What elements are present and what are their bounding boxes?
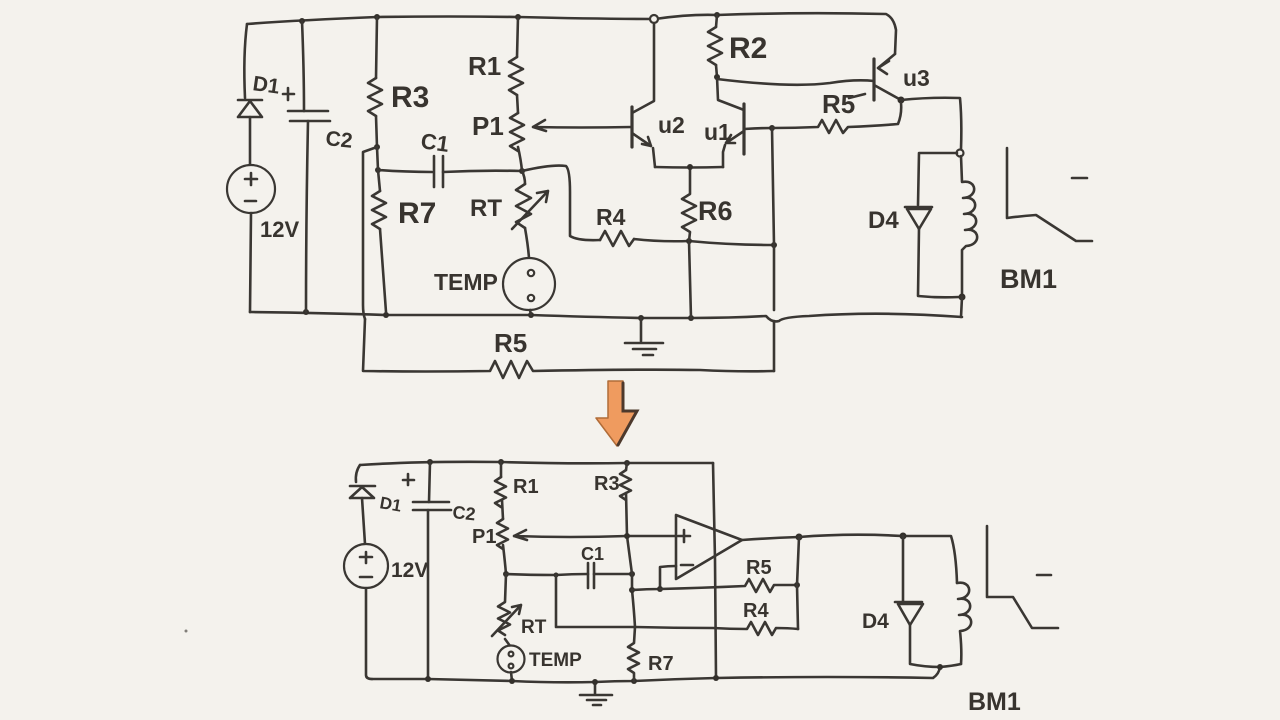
svg-text:TEMP: TEMP <box>434 269 498 295</box>
wire C1b right <box>594 573 632 576</box>
P1b wiper arrow <box>514 530 676 540</box>
wire D1b to source <box>362 498 365 544</box>
node coil bottom <box>959 294 966 301</box>
svg-text:12V: 12V <box>391 559 428 582</box>
resistor R6 <box>682 167 696 241</box>
svg-text:R2: R2 <box>729 32 767 65</box>
wire R6 node to ground rail <box>689 241 691 318</box>
node below P1b <box>503 571 509 577</box>
capacitor C2 <box>288 111 330 121</box>
svg-text:R3: R3 <box>391 81 429 114</box>
svg-text:D4: D4 <box>868 207 899 234</box>
node C2 bottom <box>303 309 309 315</box>
wire R3 top <box>376 17 377 78</box>
wire C1 to P1 node <box>443 171 522 172</box>
wire node to left drop <box>363 147 377 319</box>
svg-text:u3: u3 <box>903 65 930 91</box>
potentiometer P1 <box>510 113 524 151</box>
svg-text:R4: R4 <box>743 600 769 622</box>
resistor R4b line <box>635 622 798 635</box>
P1 wiper arrow <box>533 120 632 131</box>
sensor TEMP <box>503 258 555 310</box>
node ground rail <box>638 315 644 321</box>
node C1 left <box>375 167 381 173</box>
svg-text:R5: R5 <box>822 89 855 119</box>
wire source to bottom rail <box>250 213 251 312</box>
node C1b right <box>629 571 635 577</box>
node U1 base <box>769 125 775 131</box>
wire D4b down <box>902 536 905 601</box>
svg-text:P1: P1 <box>472 526 496 548</box>
wire top rail bottom circuit <box>360 462 713 465</box>
node R3b top <box>624 460 630 466</box>
diode D4b <box>895 602 923 625</box>
wire drop to R4b line <box>556 575 635 627</box>
node TEMPb rail <box>509 678 515 684</box>
arrow orange <box>596 381 637 446</box>
node emitters <box>687 164 693 170</box>
node supply rail bottom <box>713 675 719 681</box>
wire R7 top <box>378 170 380 191</box>
svg-text:R7: R7 <box>648 653 674 675</box>
wire C2 bottom <box>306 121 308 312</box>
node feedback <box>657 586 663 592</box>
svg-text:R6: R6 <box>698 196 733 226</box>
svg-text:P1: P1 <box>472 111 504 141</box>
wire bottom rail <box>250 312 962 321</box>
wire RT to TEMP <box>525 228 529 258</box>
wire P1 to node <box>518 147 522 171</box>
switch BM1 bottom <box>987 526 1058 628</box>
svg-text:u2: u2 <box>658 112 685 138</box>
node plus input <box>624 533 630 539</box>
transistor U3 <box>872 59 875 100</box>
diode D1 <box>238 100 262 117</box>
svg-text:u1: u1 <box>704 119 731 145</box>
stray mark <box>185 630 188 633</box>
svg-text:R7: R7 <box>398 197 436 230</box>
wire R2 bottom <box>716 65 717 77</box>
node R7 bottom <box>383 312 389 318</box>
node R6 bottom <box>686 238 692 244</box>
resistor R1b <box>495 477 506 507</box>
wire C1 node down <box>632 574 635 627</box>
wire output to relay <box>799 535 957 583</box>
svg-text:D1: D1 <box>378 493 403 515</box>
transistor U1 <box>742 104 745 154</box>
wire D4 bottom <box>918 228 959 297</box>
svg-text:C2: C2 <box>324 127 353 153</box>
wire source to bottom rail b <box>366 588 372 679</box>
node U3 collector <box>898 97 905 104</box>
svg-text:RT: RT <box>470 195 502 222</box>
wire R1b top <box>500 462 503 477</box>
wire output <box>742 537 799 540</box>
wire U3 base <box>717 79 874 85</box>
wire R3b down <box>626 493 632 574</box>
capacitor C2b <box>413 502 451 510</box>
wire U1 base vertical <box>772 128 774 371</box>
node R1 top <box>515 14 521 20</box>
svg-text:R1: R1 <box>513 476 539 498</box>
node R2 bottom <box>714 74 720 80</box>
wire bottom rail b <box>372 667 940 682</box>
source 12V bottom <box>344 544 388 588</box>
wire R1b to P1b <box>502 500 503 519</box>
capacitor C1 <box>434 156 443 187</box>
wire R3 bottom <box>376 116 377 147</box>
node C2b top <box>427 459 433 465</box>
thermistor RT <box>516 184 531 228</box>
wire R5 bottom loop <box>363 319 774 378</box>
wire supply corner down through op-amp <box>713 463 716 678</box>
node U2 collector (open) <box>650 15 658 23</box>
node below P1 <box>519 168 525 174</box>
svg-text:D1: D1 <box>251 72 281 99</box>
wire R1 top <box>517 17 518 57</box>
resistor R2 <box>708 27 722 65</box>
node R7b bottom <box>631 678 637 684</box>
source V1 12V <box>227 165 275 213</box>
svg-text:12V: 12V <box>260 217 299 242</box>
node D4b bottom <box>937 664 943 670</box>
wire top supply rail <box>247 13 896 54</box>
resistor R7b <box>628 627 639 681</box>
wire C2b bottom <box>427 510 430 679</box>
svg-text:R4: R4 <box>596 204 626 230</box>
op-amp A1 <box>676 515 742 579</box>
svg-text:R5: R5 <box>746 557 772 579</box>
relay coil bottom <box>957 583 971 664</box>
node D4 top (open) <box>957 150 964 157</box>
node drop left <box>554 573 559 578</box>
resistor R1 <box>509 57 523 95</box>
resistor R3 <box>368 78 382 116</box>
node R2 top <box>714 12 720 18</box>
svg-text:C1: C1 <box>581 544 604 564</box>
wire node to R4 drop <box>522 166 600 241</box>
svg-text:RT: RT <box>521 617 547 638</box>
thermistor RTb <box>498 574 510 635</box>
transistor U2 <box>630 107 633 147</box>
node C2b bottom <box>425 676 431 682</box>
node R4 right <box>771 242 777 248</box>
wire P1b to node <box>503 545 506 574</box>
switch BM1 <box>1007 148 1092 241</box>
svg-text:TEMP: TEMP <box>529 650 582 671</box>
resistor R3b <box>620 470 631 500</box>
wire R7 bottom <box>380 229 386 312</box>
svg-text:C2: C2 <box>452 502 477 524</box>
node minus feedback <box>629 587 635 593</box>
wire D4b bottom <box>910 624 961 667</box>
relay coil L1 <box>961 156 977 297</box>
wire RTb to TEMPb <box>505 639 510 646</box>
node R1b top <box>498 459 504 465</box>
wire U3 to coil <box>901 98 961 149</box>
wire output feedback down <box>797 537 799 629</box>
wire TEMPb to rail <box>511 672 512 681</box>
wire node to C1b <box>506 574 588 575</box>
diode D1b <box>350 486 375 498</box>
wire minus feedback <box>632 566 676 590</box>
node D4b top <box>900 533 907 540</box>
wire R1 to P1 <box>517 95 518 113</box>
node output <box>796 534 803 541</box>
wire RT top <box>522 171 525 184</box>
node R6 rail <box>688 315 694 321</box>
wire common emitters <box>655 166 723 169</box>
node C2 top <box>299 18 305 24</box>
resistor R7 <box>372 191 386 229</box>
wire coil to rail <box>961 297 962 317</box>
sensor TEMPb <box>498 646 525 673</box>
wire C2 top <box>302 21 304 111</box>
svg-text:BM1: BM1 <box>1000 264 1057 294</box>
wire D1b from corner <box>356 465 360 482</box>
wire C2b top <box>429 462 430 502</box>
svg-text:D4: D4 <box>862 610 889 633</box>
svg-text:C1: C1 <box>419 128 450 157</box>
svg-text:R1: R1 <box>468 51 501 81</box>
node R3 top <box>374 14 380 20</box>
ground symbol bottom <box>580 682 612 705</box>
wire node to C1 <box>378 170 432 172</box>
wire D4 top branch <box>918 153 957 205</box>
wire R4 to R6 node <box>634 239 774 245</box>
potentiometer P1b <box>497 519 508 549</box>
capacitor C1b <box>588 563 594 588</box>
diode D4 <box>905 207 932 229</box>
resistor R5b line <box>660 579 797 592</box>
node TEMP bottom <box>528 312 534 318</box>
resistor R4 horizontal <box>600 231 634 246</box>
wire D1 to source <box>249 117 252 165</box>
wire TEMP to rail <box>530 310 531 315</box>
svg-text:BM1: BM1 <box>968 688 1021 716</box>
resistor R5 top <box>772 103 901 133</box>
wire R3b top <box>626 463 627 470</box>
node ground b <box>592 679 598 685</box>
ground symbol <box>625 318 663 355</box>
svg-text:R5: R5 <box>494 328 527 358</box>
wire left branch down to D1 <box>244 24 247 98</box>
node below R3 <box>374 144 380 150</box>
wire R2 top <box>716 15 717 27</box>
svg-text:R3: R3 <box>594 473 620 495</box>
node R5b right <box>794 582 800 588</box>
wire between nodes <box>377 147 378 170</box>
